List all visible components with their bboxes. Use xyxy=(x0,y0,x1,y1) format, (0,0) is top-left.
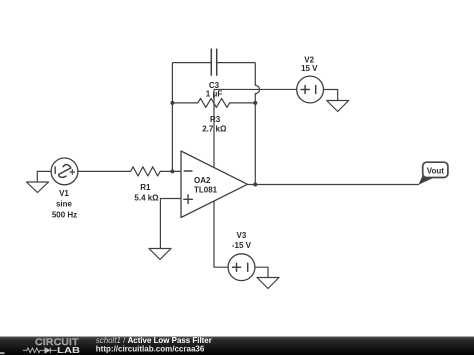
svg-text:1 μF: 1 μF xyxy=(206,89,223,98)
logo resistor-diode drawing xyxy=(23,348,57,353)
svg-text:http://circuitlab.com/ccraa36: http://circuitlab.com/ccraa36 xyxy=(96,345,205,354)
svg-text:TL081: TL081 xyxy=(194,186,218,195)
svg-text:OA2: OA2 xyxy=(194,176,211,185)
wire V+ pin to V2 rail xyxy=(213,89,215,167)
wire feedback right vertical upper xyxy=(254,63,256,86)
V2 minus bar xyxy=(315,86,317,94)
node: opamp output xyxy=(253,183,257,187)
footer bar xyxy=(0,337,474,355)
op-amp minus symbol xyxy=(184,170,192,172)
wire V2 rail horizontal xyxy=(214,88,297,90)
resistor R3 xyxy=(198,98,230,107)
svg-text:500 Hz: 500 Hz xyxy=(52,210,77,219)
svg-text:Vout: Vout xyxy=(427,167,445,176)
svg-text:-15 V: -15 V xyxy=(232,241,252,250)
ground G3 (V2) xyxy=(327,101,349,112)
V3 plus sign xyxy=(233,263,241,271)
svg-text:R1: R1 xyxy=(140,183,151,192)
wire hop over V2 rail xyxy=(255,85,259,93)
svg-text:5.4 kΩ: 5.4 kΩ xyxy=(134,194,159,203)
resistor R1 xyxy=(131,167,161,176)
ground G4 (V3) xyxy=(257,278,279,289)
V1 minus bar xyxy=(54,167,56,174)
flag Vout xyxy=(418,162,448,185)
svg-text:2.7 kΩ: 2.7 kΩ xyxy=(202,125,227,134)
wire V1 left to ground xyxy=(37,171,51,181)
wire capacitor right xyxy=(217,62,256,64)
node: R1 / feedback / minus input xyxy=(170,169,174,173)
corner speck xyxy=(0,352,5,354)
wire R3 right lead xyxy=(230,102,256,104)
wire R3 left lead xyxy=(172,102,198,104)
op-amp plus symbol xyxy=(184,195,193,204)
wire top to capacitor xyxy=(172,62,211,64)
op-amp OA2 triangle xyxy=(181,151,248,218)
wire feedback left vertical xyxy=(171,63,173,172)
svg-text:sine: sine xyxy=(56,199,73,208)
ground G2 (plus input) xyxy=(149,249,171,260)
node: R3 right xyxy=(253,101,257,105)
source V3 circle xyxy=(228,254,255,281)
svg-text:LAB: LAB xyxy=(57,346,80,355)
V2 plus sign xyxy=(301,86,309,94)
source V2 circle xyxy=(297,76,324,103)
svg-text:R3: R3 xyxy=(210,115,221,124)
wire R1 to opamp minus input xyxy=(160,170,181,172)
svg-text:V3: V3 xyxy=(237,231,247,240)
wire V2 right to ground xyxy=(324,90,338,101)
V1 plus sign xyxy=(70,170,75,175)
wire V1 to R1 xyxy=(78,170,131,172)
node: R3 left xyxy=(170,101,174,105)
ground G1 (V1) xyxy=(27,182,49,193)
wire feedback right vertical lower xyxy=(254,94,256,185)
wire V- pin to V3 xyxy=(214,201,228,267)
V3 minus bar xyxy=(247,263,249,271)
source V1 sine circle xyxy=(51,158,78,185)
wire output to Vout xyxy=(248,184,420,186)
svg-text:V1: V1 xyxy=(59,189,69,198)
V1 sine symbol xyxy=(59,165,71,178)
wire V3 right to ground xyxy=(255,267,268,277)
capacitor C3 plates xyxy=(211,49,216,76)
wire opamp plus input to ground xyxy=(160,199,181,249)
svg-text:scholt1 / Active Low Pass Filt: scholt1 / Active Low Pass Filter xyxy=(96,336,212,345)
svg-text:15 V: 15 V xyxy=(301,64,318,73)
